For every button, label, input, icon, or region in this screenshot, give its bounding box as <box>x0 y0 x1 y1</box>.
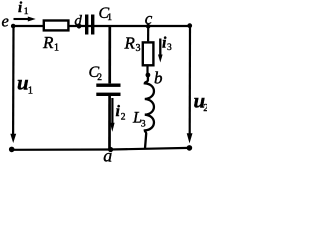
svg-text:b: b <box>154 69 163 88</box>
svg-text:i: i <box>116 103 121 120</box>
svg-text:c: c <box>145 9 153 28</box>
svg-text:1: 1 <box>24 7 29 17</box>
svg-text:2: 2 <box>121 113 126 123</box>
svg-text:R: R <box>124 34 136 53</box>
svg-text:3: 3 <box>136 43 141 54</box>
svg-text:1: 1 <box>107 13 112 23</box>
svg-text:a: a <box>103 145 112 165</box>
svg-text:2: 2 <box>203 102 207 114</box>
svg-text:2: 2 <box>97 73 102 83</box>
svg-text:3: 3 <box>141 120 146 130</box>
svg-text:R: R <box>42 33 54 52</box>
svg-text:1: 1 <box>28 85 33 96</box>
svg-text:3: 3 <box>167 43 172 53</box>
svg-text:1: 1 <box>54 43 59 54</box>
svg-text:e: e <box>2 12 9 31</box>
svg-text:d: d <box>74 13 82 29</box>
